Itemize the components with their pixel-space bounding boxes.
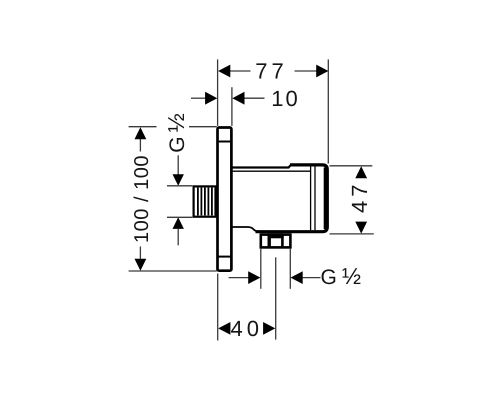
dimension G 1/2 bottom line (229, 277, 249, 279)
extension lines right for dim 47 (330, 165, 373, 167)
extension line right of dim 77 (body right edge) (327, 59, 329, 163)
dimension 100/100 top arrow (135, 127, 147, 139)
svg-text:77: 77 (255, 59, 287, 84)
extension line left for dim 40 (217, 274, 219, 341)
wall plate (escutcheon) (218, 128, 232, 271)
dimension 100/100 bottom arrow (135, 259, 147, 271)
outlet pipe right line (289, 249, 291, 289)
nipple thread hatch (198, 188, 215, 216)
extension line bottom for dim 100/100 (129, 270, 217, 272)
svg-text:47: 47 (347, 181, 372, 213)
extension lines of threaded nipple (167, 185, 192, 187)
body right cap face thickening (324, 168, 329, 230)
G 1/2 top up arrow (173, 217, 184, 229)
dimension 47 top arrow (355, 166, 367, 178)
body right cap outline (256, 165, 328, 232)
svg-text:40: 40 (231, 316, 263, 341)
extension line left of dim 77 (plate left edge) (217, 59, 219, 126)
dimension 77 line (230, 70, 318, 72)
hex nut outline (261, 235, 291, 248)
hex nut facet bar right (281, 234, 284, 248)
dimension 47 bottom arrow (355, 222, 367, 234)
outlet pipe left line (260, 249, 262, 289)
G 1/2 top down arrow (177, 155, 179, 174)
wall plate inner top line (218, 141, 232, 143)
dimension G 1/2 bottom left arrow (248, 271, 260, 284)
dimension 40 left arrow (218, 322, 230, 335)
dimension G 1/2 bottom right arrow (291, 271, 303, 284)
svg-text:G½: G½ (163, 113, 189, 153)
dimension 10 line (191, 97, 265, 99)
body bottom left underside with step (232, 227, 258, 231)
dimension 77 left arrow (218, 65, 230, 78)
svg-text:100 / 100: 100 / 100 (131, 155, 153, 243)
threaded nipple G1/2 inlet (194, 186, 217, 216)
dimension 100/100 line (139, 139, 141, 152)
body inner top line (232, 170, 311, 172)
body top left edge (232, 165, 291, 168)
hex nut top chamfer fill (268, 233, 284, 238)
outlet center line (275, 257, 277, 339)
wall plate inner bottom line (218, 256, 232, 258)
hex nut facet bar left (268, 234, 271, 248)
body inner ring line 1 (310, 167, 312, 231)
dimension 40 right arrow (263, 322, 275, 335)
extension line top for dim 100/100 (129, 126, 157, 128)
svg-text:10: 10 (271, 86, 299, 111)
extension line right of dim 10 (plate right edge) (231, 87, 233, 126)
dimension 10 left arrow (205, 92, 217, 105)
dimension 77 right arrow (316, 65, 328, 78)
body inner ring line 2 (314, 167, 316, 231)
dimension 10 right arrow (232, 92, 244, 105)
